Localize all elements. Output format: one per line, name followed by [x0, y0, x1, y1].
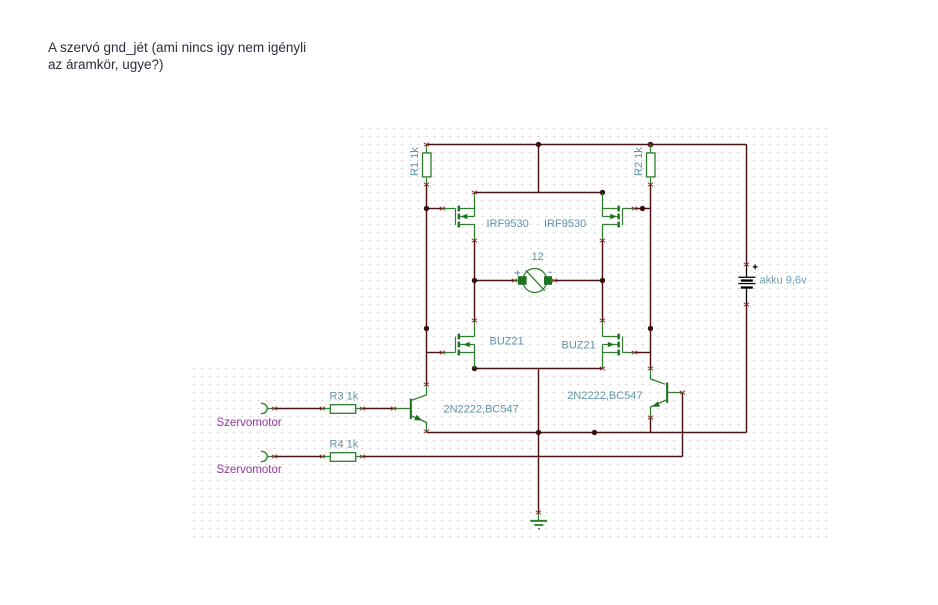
- wire motor left: [475, 280, 515, 282]
- svg-text:BUZ21: BUZ21: [562, 340, 596, 352]
- transistor U2 IRF9530 upper-right P-MOSFET: [544, 193, 637, 242]
- wire upper source rail: [475, 192, 603, 194]
- battery B1 akku 9,6v: [738, 263, 807, 307]
- svg-text:A szervó gnd_jét (ami nincs ig: A szervó gnd_jét (ami nincs igy nem igén…: [48, 40, 306, 55]
- transistor Q2 2N2222,BC547 right NPN: [567, 367, 685, 420]
- connector X1 servo input 1: [261, 403, 277, 415]
- svg-text:R2 1k: R2 1k: [633, 147, 645, 176]
- wire input 2 to R4: [275, 456, 323, 458]
- svg-text:Szervomotor: Szervomotor: [217, 417, 282, 429]
- wire Q2 base drop: [682, 393, 684, 457]
- resistor R2: [633, 143, 655, 187]
- svg-text:IRF9530: IRF9530: [544, 218, 586, 230]
- wire lower source tie: [475, 368, 603, 370]
- transistor U1 IRF9530 upper-left P-MOSFET: [440, 191, 529, 243]
- wire input 1 to R3: [275, 408, 323, 410]
- motor plus mark: [515, 272, 520, 274]
- svg-text:2N2222,BC547: 2N2222,BC547: [567, 390, 642, 402]
- transistor U4 BUZ21 lower-right N-MOSFET: [562, 319, 638, 371]
- node junction motor right: [600, 278, 605, 283]
- wire to left IRF9530 gate: [427, 208, 443, 210]
- svg-text:12: 12: [532, 251, 544, 263]
- resistor R3: [320, 391, 365, 414]
- battery plus mark: [753, 266, 758, 268]
- motor minus mark: [549, 271, 552, 273]
- node junction upper right: [600, 190, 605, 195]
- wire motor right: [555, 280, 603, 282]
- svg-text:IRF9530: IRF9530: [487, 218, 529, 230]
- wire right column: [650, 185, 652, 369]
- wire R4 to Q2 base: [363, 456, 683, 458]
- svg-text:R4 1k: R4 1k: [330, 439, 359, 451]
- wire to right IRF9530 gate: [635, 208, 651, 210]
- wire to right BUZ21 gate: [635, 352, 651, 354]
- node junction right column: [648, 326, 653, 331]
- wire right bridge leg: [602, 241, 604, 321]
- wire VCC top rail: [427, 144, 747, 146]
- motor M1 "12": [512, 251, 557, 293]
- svg-text:akku 9,6v: akku 9,6v: [760, 275, 808, 287]
- svg-text:R3 1k: R3 1k: [330, 391, 359, 403]
- wire bottom rail: [427, 432, 747, 434]
- wire ground drop: [538, 369, 540, 513]
- ground GND: [530, 511, 547, 530]
- transistor U3 BUZ21 lower-left N-MOSFET: [440, 319, 524, 369]
- wire R3 to Q1 base: [363, 408, 394, 410]
- node junction left column: [424, 326, 429, 331]
- node junction R2 top: [648, 142, 653, 147]
- node junction ground tap: [536, 430, 541, 435]
- node junction motor left: [472, 278, 477, 283]
- node junction top mid: [536, 142, 541, 147]
- svg-text:Szervomotor: Szervomotor: [217, 464, 282, 476]
- wire Q2 emitter drop: [650, 417, 652, 433]
- node junction left gate: [424, 206, 429, 211]
- svg-text:R1 1k: R1 1k: [409, 147, 421, 176]
- wire battery top: [746, 145, 748, 265]
- node junction right gate: [640, 206, 645, 211]
- wire mid drop: [538, 145, 540, 193]
- resistor R4: [320, 439, 365, 462]
- node junction source tie: [472, 366, 477, 371]
- svg-text:BUZ21: BUZ21: [490, 336, 524, 348]
- svg-text:az áramkör, ugye?): az áramkör, ugye?): [48, 57, 164, 72]
- svg-text:2N2222,BC547: 2N2222,BC547: [444, 404, 519, 416]
- wire left column: [426, 185, 428, 385]
- wire left bridge leg: [474, 241, 476, 321]
- wire battery bottom: [746, 305, 748, 433]
- wire to left BUZ21 gate: [427, 352, 443, 354]
- node junction bottom rail: [592, 430, 597, 435]
- connector X2 servo input 2: [261, 451, 277, 463]
- resistor R1: [409, 143, 431, 187]
- transistor Q1 2N2222,BC547 left NPN: [391, 383, 519, 434]
